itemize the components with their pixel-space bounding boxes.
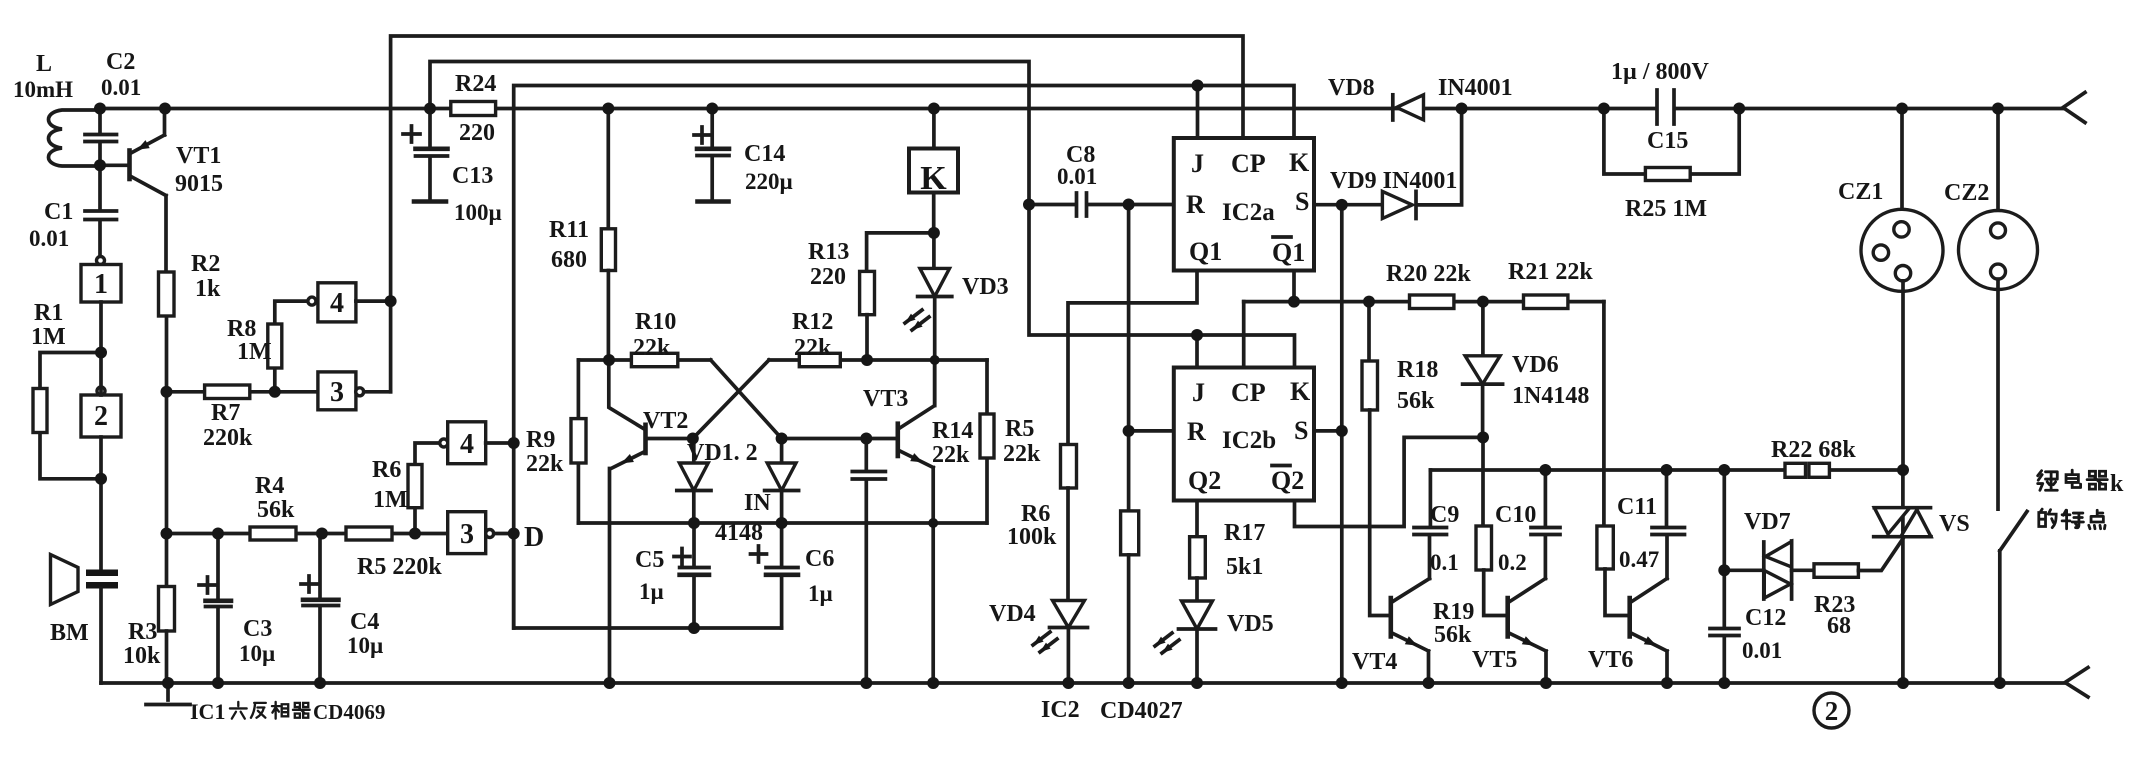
inverter gate 3 (IC1, lower pair) <box>448 512 514 554</box>
transistor VT4 <box>1391 579 1430 684</box>
wire y=470 snubber rail <box>1430 468 1903 472</box>
resistor VT6 base (R21 chain) <box>1597 302 1628 616</box>
svg-text:C1: C1 <box>44 199 73 225</box>
wire IC2b J pin drop from J/K line <box>1195 335 1199 368</box>
svg-text:C6: C6 <box>805 546 834 572</box>
wire IC2a S pin <box>1314 203 1380 207</box>
capacitor C3 10u <box>206 598 232 603</box>
circled figure number 2 <box>1814 693 1849 728</box>
resistor R9 22k <box>571 360 586 523</box>
LED VD4 <box>1033 601 1088 684</box>
inverter gate 4 (IC1d upper) <box>308 283 391 322</box>
diode VD1 IN4148 <box>677 439 711 524</box>
resistor R13 220 <box>860 233 934 360</box>
svg-text:CZ1: CZ1 <box>1838 179 1883 205</box>
svg-text:R11: R11 <box>549 217 589 243</box>
svg-text:R17: R17 <box>1224 520 1265 546</box>
wire S line to ground rail <box>1340 205 1344 683</box>
resistor R24 220 <box>451 102 496 116</box>
triac VS <box>1874 470 1931 683</box>
mains connector chevron top right <box>2063 93 2085 123</box>
svg-text:R22 68k: R22 68k <box>1771 437 1856 463</box>
svg-text:0.01: 0.01 <box>29 226 69 251</box>
svg-text:10k: 10k <box>123 643 161 669</box>
capacitor C11 0.47 <box>1652 470 1685 579</box>
svg-text:VD1. 2: VD1. 2 <box>687 440 758 466</box>
svg-text:K: K <box>1290 377 1311 406</box>
svg-text:1M: 1M <box>373 487 408 513</box>
svg-text:22k: 22k <box>1003 441 1041 467</box>
wire bottom ground rail <box>101 681 2065 685</box>
wire rail B from R24 node to IC2b J/K line <box>430 62 1295 368</box>
svg-text:5k1: 5k1 <box>1226 554 1263 580</box>
resistor R10 22k <box>631 353 677 366</box>
svg-text:0.2: 0.2 <box>1498 550 1527 575</box>
capacitor C15 1u/800V <box>1657 90 1674 124</box>
sensor element 1 box <box>81 257 121 349</box>
wire VT1 base <box>100 163 127 167</box>
inductor L 10mH <box>49 110 101 166</box>
svg-text:S: S <box>1294 416 1308 445</box>
svg-text:R9: R9 <box>526 427 555 453</box>
svg-text:R24: R24 <box>455 71 496 97</box>
svg-text:L: L <box>36 51 52 77</box>
junction dots right area <box>1539 464 1909 576</box>
wire top feedback rail A from gate4a output to IC2a CP <box>391 36 1243 392</box>
svg-text:C13: C13 <box>452 163 493 189</box>
resistor R18 56k <box>1362 302 1389 616</box>
svg-text:220µ: 220µ <box>745 169 793 194</box>
svg-text:D: D <box>524 522 544 553</box>
svg-text:1: 1 <box>94 269 108 300</box>
svg-text:VT1: VT1 <box>176 143 221 169</box>
relay coil K box <box>909 109 958 233</box>
svg-text:VD8: VD8 <box>1328 75 1375 101</box>
diode VD6 1N4148 <box>1463 302 1503 438</box>
svg-text:220k: 220k <box>203 425 253 451</box>
socket CZ2 <box>1959 109 2038 510</box>
svg-text:C14: C14 <box>744 141 785 167</box>
svg-text:VD4: VD4 <box>989 601 1036 627</box>
junction dots IC area <box>1023 80 1489 444</box>
wire IC2b S pin <box>1314 429 1342 433</box>
svg-text:R7: R7 <box>211 400 240 426</box>
svg-text:100k: 100k <box>1007 524 1057 550</box>
svg-text:C9: C9 <box>1430 502 1459 528</box>
svg-text:R4: R4 <box>255 473 284 499</box>
diode VD9 IN4001 <box>1382 109 1461 219</box>
svg-text:BM: BM <box>50 620 89 646</box>
svg-text:56k: 56k <box>1397 388 1435 414</box>
svg-text:R5 220k: R5 220k <box>357 554 442 580</box>
svg-text:22k: 22k <box>633 335 671 361</box>
svg-text:0.47: 0.47 <box>1619 547 1659 572</box>
svg-text:C12: C12 <box>1745 605 1786 631</box>
svg-text:R13: R13 <box>808 239 849 265</box>
svg-text:CZ2: CZ2 <box>1944 180 1989 206</box>
svg-text:1µ: 1µ <box>639 579 664 604</box>
wire VD7 branch drop <box>1722 470 1726 627</box>
wire IC2a J pin drop from rail C <box>1196 86 1200 139</box>
svg-text:VD3: VD3 <box>962 274 1009 300</box>
svg-text:22k: 22k <box>932 442 970 468</box>
microphone BM <box>51 353 119 684</box>
svg-text:2: 2 <box>1825 696 1839 726</box>
svg-text:Q2: Q2 <box>1188 466 1221 495</box>
svg-text:IC2a: IC2a <box>1222 199 1275 226</box>
wire R4/R5 line <box>167 532 448 536</box>
wire D line to C5/C6 bottoms <box>514 534 782 629</box>
resistor R20 22k <box>1410 295 1454 309</box>
wire cross-coupling diagonal R10 to VT3 base <box>711 360 782 439</box>
wire Q2-bar jog to VD6 node <box>1295 437 1484 526</box>
resistor R1 1M <box>33 353 101 479</box>
svg-text:R: R <box>1186 190 1205 219</box>
svg-text:0.1: 0.1 <box>1430 550 1459 575</box>
svg-text:VT6: VT6 <box>1588 647 1633 673</box>
svg-text:R5: R5 <box>1005 416 1034 442</box>
svg-text:220: 220 <box>810 264 846 290</box>
svg-text:Q1: Q1 <box>1189 237 1222 266</box>
capacitor C8 0.01 <box>1029 193 1174 216</box>
resistor R5 22k (right chain) with Q1 jog wire <box>1061 271 1198 601</box>
resistor R21 22k <box>1524 295 1568 309</box>
diac VD7 <box>1724 541 1814 599</box>
svg-text:1M: 1M <box>237 339 272 365</box>
svg-text:1N4148: 1N4148 <box>1512 383 1589 409</box>
svg-text:VT5: VT5 <box>1472 647 1517 673</box>
resistor R5 220k <box>346 527 392 540</box>
resistor R11 680 <box>601 109 615 361</box>
IC2a flip-flop box <box>1174 138 1314 271</box>
resistor R17 5k1 <box>1190 501 1206 602</box>
svg-text:0.01: 0.01 <box>1057 164 1097 189</box>
svg-text:k: k <box>2110 471 2124 497</box>
svg-text:VD9 IN4001: VD9 IN4001 <box>1330 168 1457 194</box>
svg-text:R14: R14 <box>932 418 973 444</box>
svg-text:R: R <box>1187 417 1206 446</box>
transistor VT1 9015 <box>130 109 167 273</box>
svg-text:VD7: VD7 <box>1744 509 1791 535</box>
wire R7 line <box>167 390 318 394</box>
svg-text:3: 3 <box>460 519 474 550</box>
svg-text:R10: R10 <box>635 309 676 335</box>
wire flip-flop top line y=360 <box>578 358 987 362</box>
svg-text:S: S <box>1295 187 1309 216</box>
junction dots flip-flop <box>603 227 940 634</box>
svg-text:Q2: Q2 <box>1271 466 1304 495</box>
svg-text:IN4001: IN4001 <box>1438 75 1513 101</box>
resistor R6 1M (oscillator 2) <box>408 443 440 534</box>
svg-text:100µ: 100µ <box>454 200 502 225</box>
svg-text:1µ: 1µ <box>808 581 833 606</box>
label Chinese: hex inverter text for IC1 <box>230 702 247 719</box>
svg-text:4148: 4148 <box>715 520 763 546</box>
relay contact k <box>2000 511 2027 683</box>
svg-text:J: J <box>1191 149 1204 178</box>
svg-text:VT2: VT2 <box>643 408 688 434</box>
svg-text:R25 1M: R25 1M <box>1625 196 1707 222</box>
svg-text:0.01: 0.01 <box>1742 638 1782 663</box>
svg-text:C4: C4 <box>350 609 379 635</box>
svg-text:R20 22k: R20 22k <box>1386 261 1471 287</box>
svg-text:C3: C3 <box>243 616 272 642</box>
capacitor C10 0.2 <box>1531 470 1560 579</box>
wire VD3 to VT3 collector crossing <box>933 360 937 406</box>
svg-text:680: 680 <box>551 247 587 273</box>
capacitor C1 <box>85 165 117 256</box>
svg-text:10µ: 10µ <box>347 633 383 658</box>
label Chinese: relay k note line1 <box>2038 471 2058 491</box>
transistor VT5 <box>1508 579 1546 684</box>
svg-text:56k: 56k <box>1434 622 1472 648</box>
LED VD5 <box>1155 601 1216 683</box>
svg-text:1µ / 800V: 1µ / 800V <box>1611 59 1709 85</box>
wire cross-coupling diagonal R12 to VT2 base <box>693 360 769 439</box>
svg-text:VS: VS <box>1939 511 1970 537</box>
LED VD3 <box>905 233 952 360</box>
svg-text:C2: C2 <box>106 49 135 75</box>
svg-text:IC2: IC2 <box>1041 697 1080 723</box>
svg-text:IN: IN <box>744 490 771 516</box>
svg-text:K: K <box>1289 148 1310 177</box>
junction dots bottom rail <box>162 677 2006 689</box>
resistor R7 220k <box>205 385 250 399</box>
ground symbol <box>146 683 190 705</box>
resistor R25 1M <box>1604 109 1739 181</box>
wire main positive rail y=108.5 <box>100 107 2063 111</box>
svg-text:68: 68 <box>1827 613 1851 639</box>
capacitor C14 220u <box>694 109 729 202</box>
capacitor timing mid cap <box>852 439 885 684</box>
svg-text:C10: C10 <box>1495 502 1536 528</box>
junction dots left column <box>94 159 520 539</box>
svg-text:C11: C11 <box>1617 494 1657 520</box>
svg-text:R21 22k: R21 22k <box>1508 259 1593 285</box>
svg-text:R18: R18 <box>1397 357 1438 383</box>
capacitor C5 1u <box>680 572 709 577</box>
resistor R22 68k (split body) <box>1785 463 1829 477</box>
wire Q1-bar line y=301.6 <box>1244 271 1604 302</box>
wire y=523 common line <box>578 521 986 525</box>
svg-text:CD4027: CD4027 <box>1100 698 1183 724</box>
svg-text:9015: 9015 <box>175 171 223 197</box>
capacitor C13 100u <box>403 109 448 202</box>
inverter gate 3 (IC1c upper) <box>318 372 391 410</box>
wire VT3 base line <box>782 437 896 441</box>
label Chinese: relay k note line2 <box>2039 509 2056 527</box>
svg-text:C15: C15 <box>1647 128 1688 154</box>
diode VD2 IN4148 <box>765 439 799 524</box>
svg-text:R1: R1 <box>34 300 63 326</box>
svg-text:CP: CP <box>1231 378 1266 407</box>
resistor R2 1k and wire down left vertical <box>159 272 175 587</box>
svg-text:1k: 1k <box>195 276 221 302</box>
svg-text:220: 220 <box>459 120 495 146</box>
svg-text:2: 2 <box>94 401 108 432</box>
svg-text:4: 4 <box>330 288 344 319</box>
resistor unlabeled on R line <box>1121 205 1139 684</box>
svg-text:22k: 22k <box>526 451 564 477</box>
svg-text:VD6: VD6 <box>1512 352 1559 378</box>
capacitor C9 0.1 <box>1414 470 1447 579</box>
svg-text:VD5: VD5 <box>1227 611 1274 637</box>
junction dots main rail <box>94 103 2004 115</box>
wire IC2b CP drop <box>1242 302 1246 368</box>
svg-text:3: 3 <box>330 377 344 408</box>
svg-text:R6: R6 <box>372 457 401 483</box>
svg-text:1M: 1M <box>31 324 66 350</box>
svg-text:4: 4 <box>460 429 474 460</box>
svg-text:R12: R12 <box>792 309 833 335</box>
transistor VT2 <box>609 360 693 683</box>
svg-text:CP: CP <box>1231 149 1266 178</box>
transistor VT6 <box>1630 579 1667 684</box>
svg-text:C5: C5 <box>635 547 664 573</box>
svg-text:R3: R3 <box>128 619 157 645</box>
svg-text:VT3: VT3 <box>863 386 908 412</box>
resistor R8 1M <box>268 301 308 392</box>
svg-text:IC2b: IC2b <box>1222 427 1276 454</box>
inverter gate 4 (IC1, lower pair) <box>440 422 514 464</box>
svg-text:10mH: 10mH <box>13 77 73 102</box>
wire rail C from gate pair2 vertical to IC2a K <box>514 86 1294 629</box>
resistor R3 10k <box>159 587 175 684</box>
svg-text:VT4: VT4 <box>1352 649 1397 675</box>
resistor R14 22k <box>980 360 994 523</box>
svg-text:J: J <box>1192 378 1205 407</box>
svg-text:IC1: IC1 <box>190 699 225 724</box>
wire IC2b R pin <box>1129 429 1174 433</box>
capacitor C4 10u <box>303 597 339 602</box>
svg-text:CD4069: CD4069 <box>313 700 385 724</box>
resistor R4 56k <box>250 527 296 540</box>
resistor R19 56k <box>1476 437 1506 615</box>
resistor R23 68 <box>1814 538 1903 577</box>
transistor VT3 <box>898 360 935 683</box>
svg-text:56k: 56k <box>257 497 295 523</box>
socket CZ1 <box>1861 109 1943 471</box>
svg-text:Q1: Q1 <box>1272 238 1305 267</box>
resistor R12 22k <box>799 353 840 366</box>
svg-text:10µ: 10µ <box>239 641 275 666</box>
svg-text:R2: R2 <box>191 251 220 277</box>
svg-text:22k: 22k <box>794 335 832 361</box>
svg-text:0.01: 0.01 <box>101 75 141 100</box>
capacitor C6 1u <box>766 572 798 577</box>
capacitor C2 <box>85 109 117 166</box>
mains connector chevron bottom right <box>2065 668 2088 698</box>
diode VD8 IN4001 <box>1393 95 1424 120</box>
IC2b flip-flop box <box>1174 368 1314 501</box>
sensor element 2 box <box>81 387 121 479</box>
capacitor C12 0.01 <box>1710 629 1739 684</box>
